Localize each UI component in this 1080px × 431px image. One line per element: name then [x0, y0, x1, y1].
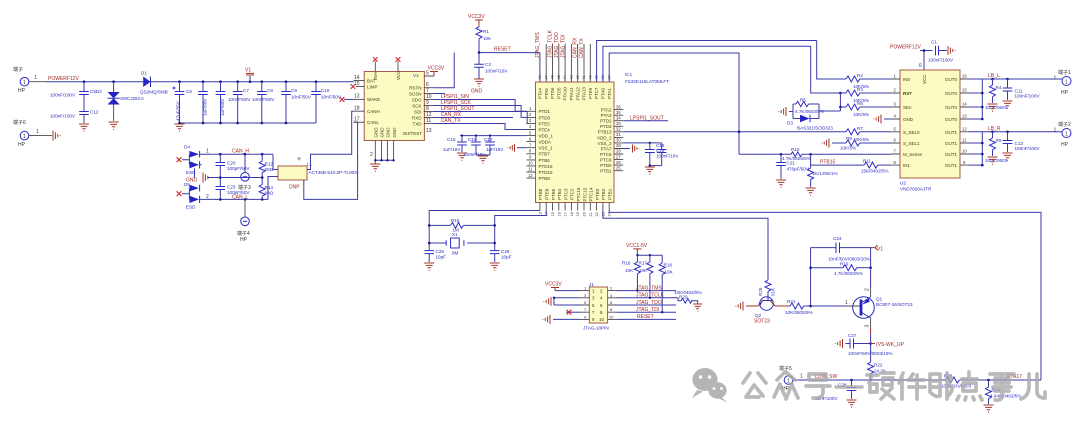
- svg-text:1: 1: [36, 129, 39, 135]
- svg-text:10: 10: [528, 161, 533, 166]
- svg-text:44: 44: [563, 75, 567, 79]
- svg-text:PTE4: PTE4: [539, 127, 551, 132]
- capacitor C6 (polarized): [173, 82, 193, 123]
- svg-text:100nF/100V: 100nF/100V: [50, 93, 76, 98]
- svg-text:WJ/TEST: WJ/TEST: [403, 131, 422, 136]
- no-ERC mark D5: [177, 191, 182, 196]
- svg-text:HP: HP: [18, 88, 26, 94]
- wire crystal left vertical to IC1: [429, 211, 540, 251]
- svg-text:PTA12: PTA12: [575, 87, 580, 101]
- svg-text:C18: C18: [656, 143, 665, 148]
- svg-text:100nF/100V: 100nF/100V: [1015, 146, 1041, 151]
- svg-text:C10: C10: [321, 88, 330, 93]
- svg-text:R3: R3: [857, 87, 863, 92]
- svg-text:16: 16: [557, 212, 561, 216]
- wire IC1 top pin to PTB13 row: [609, 53, 739, 154]
- capacitor C2: [474, 53, 508, 79]
- svg-text:1: 1: [1054, 127, 1057, 133]
- svg-text:48: 48: [538, 75, 542, 79]
- watermark wechat icon: [692, 368, 727, 403]
- svg-text:100pF/50V: 100pF/50V: [227, 166, 250, 171]
- svg-text:100nF/50V: 100nF/50V: [228, 97, 251, 102]
- MCU IC1 FS32K116LAT0MLFT: [536, 72, 670, 203]
- svg-text:15K/0402/5%: 15K/0402/5%: [861, 168, 889, 173]
- ground under R13: [806, 188, 816, 195]
- IC1 top pin stubs and numbers: [538, 44, 611, 82]
- svg-text:PTB0: PTB0: [600, 163, 612, 168]
- svg-text:10K: 10K: [625, 268, 634, 273]
- svg-text:29: 29: [616, 143, 621, 148]
- crystal X1 8M: [429, 232, 495, 256]
- wire SDO to IC1 pin1: [433, 100, 527, 112]
- svg-text:PTC9: PTC9: [600, 158, 612, 163]
- svg-text:2: 2: [370, 152, 373, 158]
- svg-text:RXD: RXD: [412, 115, 422, 120]
- svg-text:1uF/16V: 1uF/16V: [486, 147, 504, 152]
- svg-text:1: 1: [1065, 131, 1068, 137]
- svg-text:OUT1: OUT1: [945, 152, 957, 157]
- svg-text:GND: GND: [380, 127, 385, 138]
- svg-text:D3: D3: [787, 121, 793, 126]
- svg-text:SDO: SDO: [412, 97, 422, 102]
- U5 right pin stubs and numbers: [424, 71, 434, 135]
- svg-text:10pF: 10pF: [501, 255, 512, 260]
- resistor R25 above Q2: [758, 280, 776, 297]
- svg-text:1: 1: [23, 134, 26, 140]
- svg-text:PTA4: PTA4: [538, 88, 543, 99]
- capacitor C28: [815, 380, 856, 401]
- ground at terminal 6: [53, 131, 60, 141]
- capacitor C18: [649, 143, 667, 167]
- svg-text:CAN_TX: CAN_TX: [579, 38, 585, 58]
- svg-text:16: 16: [962, 74, 967, 79]
- svg-text:PTA1: PTA1: [607, 88, 612, 99]
- svg-text:R11: R11: [863, 159, 872, 164]
- ground under C6: [175, 124, 185, 131]
- diode D3 BAS321: [787, 104, 840, 131]
- svg-text:R9: R9: [996, 138, 1002, 143]
- svg-text:10: 10: [609, 314, 614, 319]
- svg-text:470pF/50V: 470pF/50V: [787, 167, 810, 172]
- svg-text:PTC3: PTC3: [563, 188, 568, 200]
- svg-text:JTAG_TDI: JTAG_TDI: [560, 35, 566, 58]
- svg-text:POWERF12V: POWERF12V: [48, 76, 80, 82]
- wire IC1 top pin to R3 net: [603, 46, 811, 82]
- svg-text:R19: R19: [840, 261, 849, 266]
- ground at J1 pin9: [543, 315, 581, 324]
- IC1 right pin names: [597, 108, 612, 174]
- node vertical to C24 R19: [810, 248, 812, 306]
- svg-text:12: 12: [962, 127, 967, 132]
- svg-text:RSTN: RSTN: [409, 86, 421, 91]
- net LPSPI1_SOUT at IC1 right: [623, 115, 668, 121]
- resistor R16: [622, 255, 640, 292]
- svg-text:V1: V1: [413, 73, 419, 78]
- svg-text:C17: C17: [484, 137, 493, 142]
- svg-text:PTB13: PTB13: [598, 130, 612, 135]
- capacitor C4: [216, 82, 226, 123]
- svg-text:CANH: CANH: [367, 109, 380, 114]
- svg-text:VCC: VCC: [922, 74, 927, 84]
- power port VS-WK_UP flag: [871, 342, 905, 348]
- svg-text:端子6: 端子6: [13, 119, 26, 126]
- capacitor C25: [424, 249, 446, 262]
- svg-text:RST: RST: [903, 91, 912, 96]
- svg-text:FS32K116LAT0MLFT: FS32K116LAT0MLFT: [625, 79, 669, 84]
- svg-text:PTA5: PTA5: [544, 88, 549, 99]
- svg-text:17: 17: [354, 117, 360, 123]
- svg-text:R16: R16: [622, 261, 631, 266]
- wire IN1 from IC1 PTB0: [811, 164, 864, 166]
- transistor Q1 BC807-16/SOT23: [845, 248, 913, 344]
- svg-text:60Ω: 60Ω: [265, 191, 274, 196]
- svg-text:R22: R22: [874, 363, 883, 368]
- svg-text:L1: L1: [307, 162, 313, 167]
- svg-text:WAKE: WAKE: [367, 97, 380, 102]
- svg-text:PTC2: PTC2: [570, 188, 575, 200]
- capacitor C19: [645, 142, 679, 166]
- svg-text:C15: C15: [447, 137, 456, 142]
- svg-text:100nF/16V: 100nF/16V: [485, 69, 508, 74]
- svg-text:HP: HP: [18, 142, 26, 148]
- svg-text:51K: 51K: [771, 287, 776, 296]
- svg-text:1: 1: [23, 80, 26, 86]
- svg-text:10K/0805/5%: 10K/0805/5%: [785, 310, 813, 315]
- svg-text:LB_L: LB_L: [988, 73, 1000, 79]
- svg-text:4.7K/0603/5%: 4.7K/0603/5%: [834, 271, 863, 276]
- svg-text:24: 24: [608, 212, 612, 216]
- ground under C15: [457, 153, 467, 160]
- wires J1 right rows: [616, 291, 678, 320]
- ground at D3 branch: [779, 107, 786, 116]
- GND symbol of ESD diodes: [186, 173, 210, 184]
- svg-text:C25: C25: [436, 249, 445, 254]
- svg-text:41: 41: [582, 75, 586, 79]
- resistor R8: [832, 136, 891, 151]
- svg-text:15: 15: [551, 212, 555, 216]
- capacitor C1: [928, 40, 954, 63]
- resistor R22: [868, 344, 887, 381]
- svg-text:C24: C24: [833, 236, 842, 241]
- no-ERC mark LIMP pin: [351, 84, 356, 89]
- resistor R21: [785, 299, 845, 315]
- svg-text:OUT0: OUT0: [945, 117, 957, 122]
- svg-text:1uF/50V: 1uF/50V: [220, 98, 225, 116]
- wire LOW_SW row: [793, 379, 946, 381]
- svg-text:R4: R4: [996, 85, 1002, 90]
- svg-text:100nF/100V: 100nF/100V: [928, 58, 954, 63]
- svg-text:J1: J1: [589, 282, 594, 287]
- svg-text:PTA0: PTA0: [601, 88, 606, 99]
- svg-text:R10: R10: [791, 147, 800, 152]
- IC1 bottom pin stubs and numbers: [538, 203, 611, 217]
- wire IC1 top pin to R2 net: [597, 41, 817, 83]
- wire CAN_H: [200, 154, 278, 169]
- svg-text:PTD2: PTD2: [600, 119, 612, 124]
- svg-text:10K: 10K: [665, 270, 674, 275]
- resistor R20: [674, 290, 702, 304]
- svg-text:PTD3: PTD3: [600, 124, 612, 129]
- capacitor C9: [281, 82, 312, 123]
- watermark text 公众号 — 硬件那点事儿 (drawn strokes): [743, 372, 1045, 400]
- svg-text:V1: V1: [245, 68, 251, 74]
- svg-text:D4: D4: [184, 145, 190, 150]
- svg-text:VDD_2: VDD_2: [597, 135, 612, 140]
- wire RSTN to RESET junction: [433, 53, 454, 88]
- svg-text:45: 45: [557, 75, 561, 79]
- svg-text:R14: R14: [265, 185, 274, 190]
- wire mid ground row: [208, 177, 262, 179]
- svg-text:SOT23: SOT23: [754, 319, 770, 325]
- capacitor C20: [216, 154, 251, 177]
- svg-text:1: 1: [206, 149, 209, 155]
- svg-text:34: 34: [616, 115, 621, 120]
- svg-text:SMCJ26CA: SMCJ26CA: [120, 96, 145, 101]
- resistor R17: [639, 255, 653, 299]
- svg-text:U2: U2: [900, 181, 906, 186]
- svg-text:47uF/35V: 47uF/35V: [176, 100, 181, 121]
- svg-text:IC1: IC1: [625, 72, 633, 77]
- resistor R1: [476, 27, 492, 53]
- resistor R13 pulldown: [808, 154, 838, 187]
- U2 left pin stubs and numbers: [891, 74, 900, 165]
- resistor R24 pulldown: [986, 380, 1022, 404]
- U5 left pin stubs and numbers: [354, 75, 365, 123]
- svg-text:R6: R6: [857, 101, 863, 106]
- svg-text:SCSN: SCSN: [409, 91, 422, 96]
- capacitor C12: [50, 110, 99, 124]
- svg-text:VCC3V: VCC3V: [545, 282, 562, 288]
- svg-text:17: 17: [564, 212, 568, 216]
- svg-text:27: 27: [616, 154, 621, 159]
- svg-text:13: 13: [354, 94, 360, 100]
- svg-text:10K/5%: 10K/5%: [840, 146, 856, 151]
- svg-text:PTB9: PTB9: [539, 176, 551, 181]
- ground under C18 C19: [645, 167, 655, 174]
- wire PTB13 row to R7: [623, 131, 846, 133]
- svg-text:1: 1: [800, 374, 803, 380]
- capacitor C21: [776, 154, 810, 179]
- svg-text:10K: 10K: [639, 268, 648, 273]
- svg-text:4.64K/0402/5%: 4.64K/0402/5%: [990, 394, 1021, 399]
- ground under C11: [1003, 101, 1013, 108]
- power bar at VSS_2: [623, 145, 639, 153]
- svg-text:PTA10: PTA10: [563, 87, 568, 101]
- svg-text:PTB1: PTB1: [607, 188, 612, 200]
- ground under C25: [424, 263, 434, 270]
- svg-text:100K/0603: 100K/0603: [985, 158, 1008, 163]
- svg-text:30: 30: [616, 138, 621, 143]
- capacitor C11: [1003, 79, 1041, 100]
- svg-text:JTAG_TCLK: JTAG_TCLK: [548, 29, 554, 58]
- svg-text:CANL: CANL: [367, 120, 380, 125]
- svg-text:M_Sense: M_Sense: [903, 152, 923, 157]
- svg-text:5: 5: [426, 71, 429, 77]
- svg-text:R25: R25: [758, 287, 763, 296]
- svg-text:PTA13: PTA13: [582, 87, 587, 101]
- svg-text:2: 2: [864, 288, 870, 291]
- wire main 12V rail: [46, 81, 354, 83]
- svg-text:端子2: 端子2: [1058, 121, 1071, 128]
- ground GND under C2: [471, 79, 484, 95]
- svg-text:13: 13: [426, 128, 432, 134]
- svg-text:100nF/100V: 100nF/100V: [1015, 94, 1041, 99]
- svg-text:BAS321/SOD323: BAS321/SOD323: [797, 126, 833, 131]
- ground at J1 pins 3 5: [544, 297, 581, 306]
- svg-text:OUT1: OUT1: [945, 130, 957, 135]
- capacitor C24: [811, 236, 871, 262]
- terminal 端子6: [13, 119, 52, 148]
- svg-text:10: 10: [962, 149, 967, 154]
- dual ESD diode D5: [182, 182, 200, 210]
- J1 pin stubs and outside numbers: [581, 286, 617, 320]
- wire SCK to IC1 pin2: [433, 106, 527, 118]
- wire RESET: [479, 53, 540, 82]
- svg-text:C26: C26: [501, 249, 510, 254]
- svg-text:1: 1: [1054, 76, 1057, 82]
- svg-text:13: 13: [962, 114, 967, 119]
- svg-text:100nF/50V: 100nF/50V: [252, 97, 275, 102]
- IC1 top pin names (rotated): [538, 87, 612, 101]
- svg-text:R18: R18: [664, 263, 673, 268]
- resistor R15: [429, 218, 495, 233]
- wire SCSN stub: [433, 93, 445, 95]
- wire choke to CANL pin of U5: [304, 122, 358, 199]
- svg-text:35: 35: [616, 110, 621, 115]
- svg-text:10: 10: [599, 317, 604, 322]
- svg-text:JTAG-10PIN: JTAG-10PIN: [583, 326, 609, 331]
- resistor R9: [985, 132, 1008, 163]
- capacitor C13: [1003, 132, 1041, 152]
- svg-text:R21: R21: [787, 299, 796, 304]
- svg-text:INH: INH: [373, 72, 378, 80]
- power port VCC1-5V: [626, 243, 662, 256]
- svg-text:R5: R5: [800, 98, 806, 103]
- svg-text:C2: C2: [485, 62, 491, 67]
- ground under C28: [847, 400, 857, 407]
- svg-text:VDD_1: VDD_1: [539, 134, 554, 139]
- wire OUT0 bus: [969, 78, 1062, 121]
- svg-text:D1: D1: [141, 71, 147, 76]
- svg-text:VDDA: VDDA: [539, 140, 552, 145]
- power port VCC3V at J1: [545, 282, 581, 291]
- svg-text:端子1: 端子1: [1058, 69, 1071, 76]
- svg-text:43: 43: [570, 75, 574, 79]
- svg-text:10nF/50V: 10nF/50V: [321, 95, 342, 100]
- resistor R12: [259, 154, 273, 177]
- svg-text:HP: HP: [1061, 142, 1069, 148]
- resistor R5: [789, 98, 824, 119]
- ground under R4: [988, 104, 998, 111]
- svg-text:1K/1206/1%: 1K/1206/1%: [813, 171, 838, 176]
- svg-text:8M: 8M: [452, 251, 459, 256]
- resistor R11: [861, 159, 891, 174]
- svg-text:VSS_1: VSS_1: [539, 146, 554, 151]
- svg-text:PTE8: PTE8: [545, 188, 550, 200]
- svg-text:RESET: RESET: [637, 314, 654, 320]
- svg-text:100nF/16V: 100nF/16V: [656, 154, 679, 159]
- capacitor C5D2: [50, 82, 102, 112]
- resistor R6: [839, 93, 891, 117]
- svg-text:11: 11: [962, 138, 967, 143]
- IC1 right pin stubs and numbers: [614, 104, 623, 170]
- ground under C12: [79, 124, 89, 131]
- svg-text:LPSPI1_SOUT: LPSPI1_SOUT: [630, 115, 664, 121]
- svg-text:C21: C21: [787, 161, 796, 166]
- dual ESD diode D4: [182, 145, 202, 178]
- svg-text:VCC3V: VCC3V: [468, 14, 485, 20]
- svg-text:PTC8: PTC8: [600, 152, 612, 157]
- svg-text:C16: C16: [468, 137, 477, 142]
- svg-text:PTA2: PTA2: [601, 108, 612, 113]
- svg-text:JTAG_TDO: JTAG_TDO: [636, 300, 662, 306]
- svg-text:C27: C27: [848, 333, 857, 338]
- ground at C27: [835, 339, 842, 348]
- svg-text:SEn: SEn: [903, 105, 912, 110]
- ground under C16 C17: [478, 156, 488, 163]
- svg-text:1: 1: [845, 300, 848, 306]
- svg-text:PTB2: PTB2: [601, 188, 606, 200]
- svg-text:(VS-WK_UP: (VS-WK_UP: [876, 342, 904, 348]
- IC1 left pin stubs and numbers: [526, 106, 535, 178]
- svg-text:QS2MQ/SMB: QS2MQ/SMB: [140, 90, 168, 95]
- svg-text:X1: X1: [452, 232, 458, 237]
- svg-text:PTB5: PTB5: [551, 188, 556, 200]
- svg-text:10K: 10K: [483, 36, 492, 41]
- no-ERC mark D4: [177, 157, 182, 162]
- wire ground bus: [180, 122, 317, 124]
- svg-text:C12: C12: [90, 110, 99, 115]
- wire 12V to C1 and U2 VCC: [920, 51, 933, 71]
- svg-text:LIMP: LIMP: [367, 84, 378, 89]
- svg-text:SCK: SCK: [412, 103, 421, 108]
- svg-text:3: 3: [864, 325, 870, 328]
- svg-text:JTAG_TMS: JTAG_TMS: [535, 32, 541, 58]
- terminal 端子5: [779, 365, 803, 392]
- svg-text:VSS_2: VSS_2: [597, 141, 612, 146]
- resistor R19: [811, 261, 872, 276]
- ground under R9: [988, 157, 998, 164]
- IC1 left pin names: [539, 109, 554, 181]
- varistor V1: [245, 68, 254, 82]
- U5 top pins with no-ERC marks: [373, 57, 401, 71]
- ground at U2 GND pin: [874, 115, 891, 124]
- svg-text:47: 47: [544, 75, 548, 79]
- svg-text:端子: 端子: [13, 66, 23, 73]
- terminal 端子1: [1054, 69, 1072, 96]
- ground under C26: [490, 263, 500, 270]
- svg-text:11: 11: [528, 167, 533, 172]
- terminal 端子3: [238, 154, 251, 191]
- resistor R2: [817, 41, 891, 90]
- svg-text:V1: V1: [877, 247, 883, 253]
- svg-text:OUT0: OUT0: [945, 105, 957, 110]
- net labels on IC1 top pins (rotated red): [535, 29, 585, 58]
- junction dots on rail: [83, 80, 318, 83]
- svg-text:BC807-16/SOT23: BC807-16/SOT23: [876, 302, 913, 307]
- svg-text:JTAG_TDI: JTAG_TDI: [636, 307, 659, 313]
- svg-text:14: 14: [962, 102, 967, 107]
- svg-text:PTB3: PTB3: [595, 188, 600, 200]
- capacitor C27: [846, 333, 893, 356]
- svg-text:IN0: IN0: [903, 77, 911, 82]
- svg-text:R1: R1: [483, 29, 489, 34]
- svg-text:100nF/100V: 100nF/100V: [50, 114, 76, 119]
- capacitor C3: [198, 82, 208, 123]
- svg-text:1: 1: [787, 378, 790, 384]
- svg-text:C6: C6: [186, 89, 192, 94]
- svg-text:ESD: ESD: [186, 205, 196, 210]
